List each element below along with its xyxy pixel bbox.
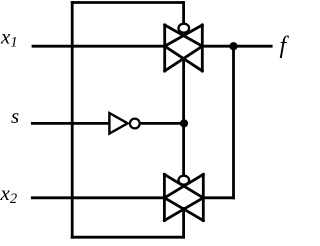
- wire: x1 input to TG1 left terminal: [33, 45, 165, 48]
- wire: riser from TG2 output up to node f: [232, 46, 235, 198]
- transmission gate TG1 (top, passes x1): [165, 25, 203, 71]
- wire: node f to output label: [234, 45, 272, 48]
- wire: s input to inverter: [32, 122, 109, 125]
- inverter (generates s-bar): [109, 113, 139, 134]
- junction node f (dot): [229, 42, 237, 50]
- wire: TG1 lower control down to node sbar: [182, 59, 185, 124]
- wire: TG2 right terminal toward riser: [203, 196, 233, 199]
- junction node sbar (dot): [180, 119, 188, 127]
- svg-text:s: s: [11, 104, 19, 128]
- wire: drop from top edge to TG1 bubble: [182, 3, 185, 25]
- TG1 control bubble (top): [179, 24, 190, 33]
- wire: x2 input to TG2 left terminal: [32, 196, 164, 199]
- wire: control loop top edge: [72, 1, 183, 4]
- wire: TG1 right terminal to output node f: [202, 45, 233, 48]
- svg-text:x2: x2: [0, 181, 17, 207]
- wire: left control rail (s loop, vertical): [71, 3, 74, 238]
- TG2 control bubble (top): [179, 176, 190, 185]
- wire: riser from bottom edge to TG2 lower control: [182, 209, 185, 238]
- wire: control loop bottom edge: [72, 236, 183, 239]
- transmission gate TG2 (bottom, passes x2): [164, 174, 203, 220]
- svg-text:f: f: [280, 33, 290, 59]
- wire: inverter output to node sbar: [140, 122, 183, 125]
- svg-text:x1: x1: [0, 25, 18, 51]
- wire: node sbar down to TG2 bubble: [182, 123, 185, 176]
